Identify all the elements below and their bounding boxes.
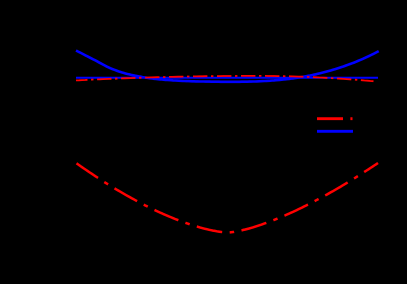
blue curve B (flat branch): [76, 77, 378, 79]
red dash-dot curve D (lower U curve): [77, 163, 379, 233]
legend red dash-dot sample: [317, 117, 353, 120]
legend blue solid sample: [317, 130, 353, 133]
blue curve A (U-shaped upper branch): [76, 51, 379, 82]
red dash-dot curve C (shallow arc): [76, 76, 374, 81]
